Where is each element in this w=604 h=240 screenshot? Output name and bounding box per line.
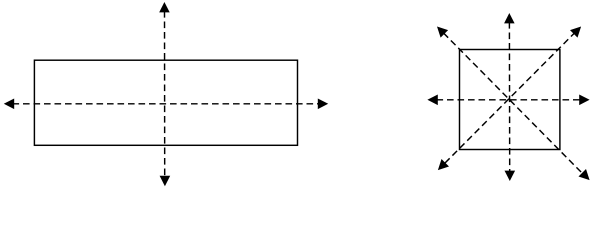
left arrowhead of horizontal axis bbox=[4, 99, 14, 110]
horizontal axis of square (dashed) bbox=[437, 99, 581, 101]
vertical axis of rectangle (dashed) bbox=[164, 11, 166, 178]
diagonal axis of square (up-left to down-right, dashed) bbox=[444, 33, 583, 174]
top arrowhead of square vertical axis bbox=[504, 13, 514, 23]
right arrowhead of square horizontal axis bbox=[579, 95, 589, 106]
up-left arrowhead of diagonal axis bbox=[437, 27, 448, 38]
top arrowhead of vertical axis bbox=[159, 2, 170, 12]
right arrowhead of horizontal axis bbox=[318, 99, 328, 110]
down-right arrowhead of diagonal axis bbox=[579, 169, 590, 180]
diagonal axis of square (down-left to up-right, dashed) bbox=[445, 34, 574, 164]
bottom arrowhead of square vertical axis bbox=[505, 171, 516, 181]
rectangle bbox=[34, 60, 297, 145]
horizontal axis of rectangle (dashed) bbox=[13, 103, 320, 105]
left arrowhead of square horizontal axis bbox=[427, 95, 437, 106]
up-right arrowhead of diagonal axis bbox=[570, 27, 581, 38]
down-left arrowhead of diagonal axis bbox=[438, 159, 449, 170]
square bbox=[460, 50, 560, 150]
bottom arrowhead of vertical axis bbox=[160, 176, 171, 186]
vertical axis of square (dashed) bbox=[508, 22, 510, 172]
